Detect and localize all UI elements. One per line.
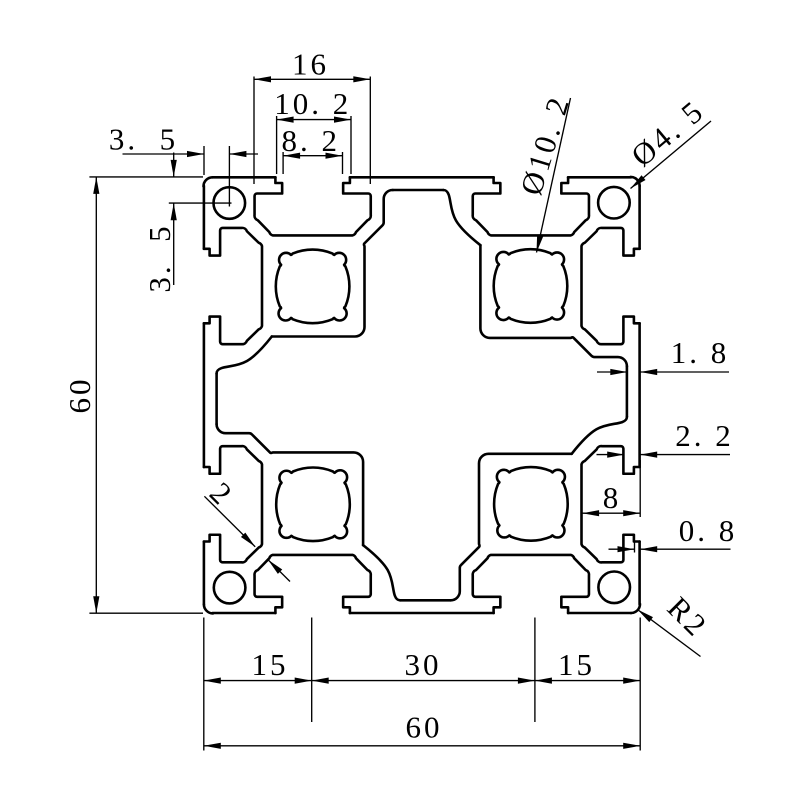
dim 3.5v lower tail — [173, 203, 175, 285]
corner hole vertical center line — [228, 146, 230, 207]
svg-text:8. 2: 8. 2 — [281, 123, 340, 158]
leader R2 arrow — [638, 610, 653, 623]
central void sweep from quadrant block underside into left wall — [572, 417, 627, 454]
dim 0.8 left tail — [609, 548, 635, 550]
dim 3.5h right-pointing arrow — [187, 151, 204, 157]
corner screw hole dia 4.5 — [214, 187, 246, 219]
dimension linework — [89, 76, 730, 750]
dim 10.2 right extension line — [350, 116, 352, 174]
dim 0.8 right tail — [640, 548, 730, 550]
dim 8.2 line — [283, 155, 342, 157]
dim 3.5h left tail — [123, 153, 205, 155]
profile top outer surface between slots — [350, 176, 494, 179]
dim 10.2 right arrow — [334, 117, 351, 123]
leader web2 first arrow — [241, 533, 255, 547]
leader web2 tail beyond — [268, 560, 290, 582]
corner screw hole dia 4.5 — [598, 572, 630, 604]
dim 10.2 line — [277, 119, 351, 121]
quadrant 4 profile linework (rotated 270 deg) — [204, 186, 480, 614]
clover screw boss hole dia 10.2 — [494, 467, 568, 541]
dim 8 right arrow — [623, 510, 640, 516]
dim 60b right arrow — [623, 743, 640, 749]
corner screw hole dia 4.5 — [214, 572, 246, 604]
svg-text:1. 8: 1. 8 — [671, 335, 730, 370]
svg-text:10. 2: 10. 2 — [274, 86, 351, 121]
dim 60 down arrow — [93, 596, 99, 613]
svg-text:0. 8: 0. 8 — [679, 513, 738, 548]
profile top outer surface between slots — [203, 323, 206, 467]
T-slot pocket, top side at 15mm (opening 8.2, counterbore 10.2, chamber 16, depth 8) — [204, 446, 262, 562]
aluminium extrusion profile cross-section 60x60 — [204, 177, 641, 614]
dim 10.2 left arrow — [277, 117, 294, 123]
dim 2.2 right tail — [640, 454, 730, 456]
dim 2.2 right-pointing arrow — [607, 452, 624, 458]
T-slot pocket, top side at 15mm (opening 8.2, counterbore 10.2, chamber 16, depth 8) — [582, 228, 640, 344]
leader dia10.2 arrow — [537, 235, 544, 252]
diagonal web (2mm) from wall to next quadrant block — [364, 190, 393, 245]
dim 16 right extension line — [369, 77, 371, 185]
svg-text:3. 5: 3. 5 — [109, 122, 178, 157]
dim 60 vertical line — [95, 177, 97, 613]
svg-text:16: 16 — [292, 47, 329, 82]
dim 8.2 right arrow — [326, 153, 343, 159]
leader web2 second arrow — [268, 560, 282, 574]
dim 15b right arrow — [623, 678, 640, 684]
dim 30 left arrow — [312, 678, 329, 684]
dim 0.8 extension line — [634, 543, 636, 553]
dim 10.2 left extension line — [276, 116, 278, 174]
dim 1.8 right tail — [640, 371, 729, 373]
dim 60 up arrow — [93, 177, 99, 194]
dim 3.5v upper tail — [173, 153, 175, 177]
central void sweep from quadrant block underside into left wall — [217, 337, 272, 374]
bottom slot15 center extension line — [311, 618, 313, 723]
T-slot pocket, top side at 45mm — [204, 228, 262, 344]
profile top outer surface between slots — [638, 323, 641, 467]
svg-text:30: 30 — [405, 647, 442, 682]
quadrant block underside and right face — [272, 246, 365, 337]
profile outer corner arc (R2), top-left — [204, 604, 213, 613]
bottom slot45 center extension line — [534, 618, 536, 723]
dim 0.8 right-pointing arrow — [618, 546, 635, 552]
dim 15/30/15 line — [204, 680, 640, 682]
profile top outer surface, corner to first slot — [638, 186, 641, 249]
dim 16 left arrow — [254, 76, 271, 82]
bottom right corner extension line — [639, 618, 641, 751]
dimension texts — [62, 47, 737, 745]
corner screw hole dia 4.5 — [598, 187, 630, 219]
dim 60 top extension line — [89, 176, 203, 178]
profile outer corner arc (R2), top-left — [631, 604, 640, 613]
svg-text:15: 15 — [252, 647, 289, 682]
svg-text:8: 8 — [603, 480, 622, 515]
leader R2 — [638, 610, 701, 657]
dim 8.2 right extension line — [342, 152, 344, 174]
dim 60 bottom extension line — [89, 612, 203, 614]
dim 30 right arrow — [518, 678, 535, 684]
left wall inner surface (1.8 wall) — [626, 366, 629, 417]
quadrant 2 profile linework (rotated 90 deg) — [364, 177, 640, 605]
T-slot pocket, top side at 45mm — [473, 177, 589, 235]
dim 3.5h corner extension line — [203, 146, 205, 175]
leader dia4.5 arrow — [631, 175, 646, 188]
corner hole horizontal center line — [169, 202, 232, 204]
profile top outer surface, corner to first slot — [568, 612, 631, 615]
svg-text:60: 60 — [62, 377, 97, 414]
dim 16 line — [254, 78, 370, 80]
profile outer corner arc (R2), top-left — [204, 177, 213, 186]
dim 1.8 right-pointing arrow — [610, 369, 627, 375]
dim 8 left arrow — [582, 510, 599, 516]
clover screw boss hole dia 10.2 — [494, 249, 568, 323]
clover screw boss hole dia 10.2 — [276, 468, 350, 542]
diagonal web (2mm) from wall to next quadrant block — [572, 337, 627, 366]
central void sweep from quadrant block underside into left wall — [443, 190, 480, 245]
dim 60b left arrow — [204, 743, 221, 749]
left wall inner surface (1.8 wall) — [400, 599, 451, 602]
dim 3.5h right tail — [229, 153, 258, 155]
dim 0.8 left-pointing arrow — [640, 546, 657, 552]
svg-text:60: 60 — [406, 710, 443, 745]
diagonal web (2mm) from wall to next quadrant block — [217, 424, 272, 453]
dim 8.2 left arrow — [283, 153, 300, 159]
dim 3.5v up arrow — [171, 203, 177, 220]
bottom left corner extension line — [203, 618, 205, 751]
central void sweep from quadrant block underside into left wall — [363, 545, 400, 600]
dim 1.8 left-pointing arrow — [640, 369, 657, 375]
profile top outer surface, second slot to corner — [203, 186, 206, 249]
svg-text:2. 2: 2. 2 — [675, 418, 734, 453]
svg-text:15: 15 — [558, 647, 595, 682]
clover screw boss hole dia 10.2 — [276, 250, 350, 324]
quadrant block underside and right face — [480, 245, 571, 338]
dim 15 left arrow — [204, 678, 221, 684]
dim 8 line — [582, 512, 640, 514]
dim 1.8 left tail — [597, 371, 627, 373]
quadrant 3 profile linework (rotated 180 deg) — [213, 337, 641, 613]
svg-text:3. 5: 3. 5 — [142, 223, 177, 292]
dim 16 left extension line — [253, 77, 255, 185]
dim 3.5v down arrow — [171, 160, 177, 177]
T-slot pocket, top side at 15mm (opening 8.2, counterbore 10.2, chamber 16, depth 8) — [473, 555, 589, 613]
dim 16 right arrow — [353, 76, 370, 82]
profile top outer surface, corner to first slot — [203, 542, 206, 605]
profile top outer surface, corner to first slot — [213, 176, 276, 179]
T-slot pocket, top side at 15mm (opening 8.2, counterbore 10.2, chamber 16, depth 8) — [255, 177, 371, 235]
dim 60 bottom line — [204, 745, 640, 747]
dim 2.2 left-pointing arrow — [640, 452, 657, 458]
profile top outer surface, second slot to corner — [568, 176, 631, 179]
dim 15 right arrow — [295, 678, 312, 684]
T-slot pocket, top side at 45mm — [582, 446, 640, 562]
profile outer corner arc (R2), top-left — [631, 177, 640, 186]
profile top outer surface, second slot to corner — [638, 542, 641, 605]
quadrant block underside and right face — [272, 452, 363, 545]
leader web 2 — [204, 496, 255, 547]
dim 15b left arrow — [535, 678, 552, 684]
profile top outer surface between slots — [350, 612, 494, 615]
T-slot pocket, top side at 45mm — [255, 555, 371, 613]
dim 8.2 left extension line — [282, 152, 284, 174]
diagonal web (2mm) from wall to next quadrant block — [451, 546, 480, 601]
left wall inner surface (1.8 wall) — [393, 189, 444, 192]
dim 3.5h left-pointing arrow — [229, 151, 246, 157]
dim 2.2 left tail — [597, 454, 625, 456]
dim 8 extension line through slot mouth — [639, 460, 641, 517]
quadrant 1 (top-left) profile linework — [204, 177, 632, 453]
quadrant block underside and right face — [479, 454, 572, 545]
leader dia10.2 — [537, 98, 571, 253]
profile top outer surface, second slot to corner — [213, 612, 276, 615]
left wall inner surface (1.8 wall) — [215, 374, 218, 425]
leader dia4.5 — [631, 121, 712, 189]
